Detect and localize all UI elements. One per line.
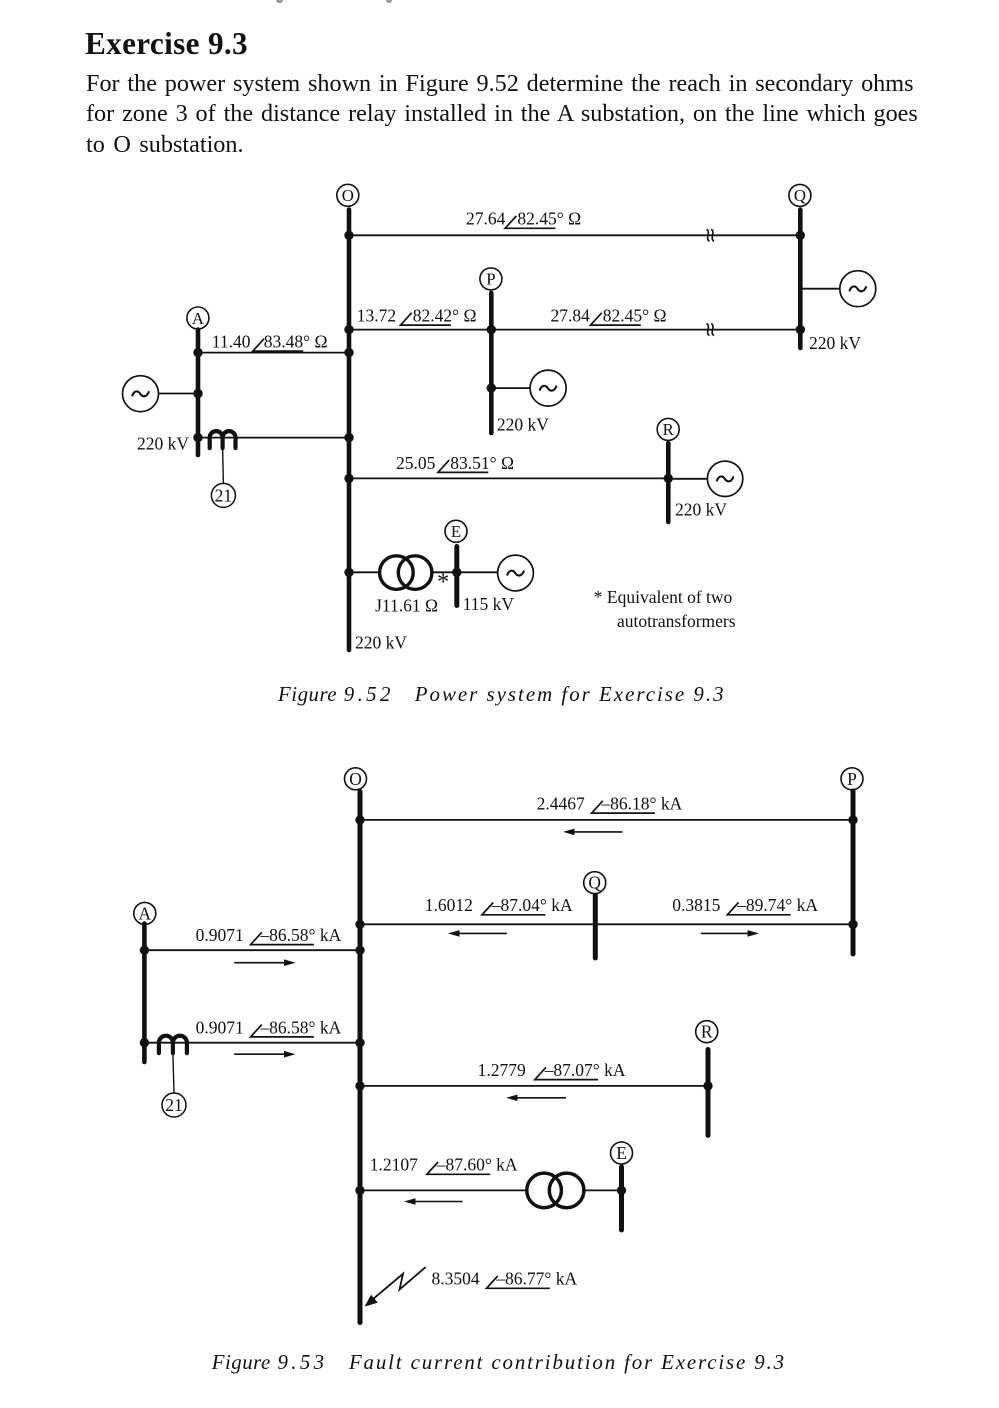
svg-text:8.3504: 8.3504 bbox=[432, 1269, 480, 1289]
svg-text:220 kV: 220 kV bbox=[809, 333, 861, 353]
junction line A-O upper at A bbox=[193, 348, 202, 357]
busbar Q (fig 9.53) bbox=[593, 895, 598, 958]
wire transformer branch O side bbox=[349, 571, 381, 573]
label Q voltage 220 kV bbox=[809, 333, 861, 353]
value label current E-O bbox=[370, 1155, 518, 1175]
node P label (fig 9.52) bbox=[480, 268, 502, 290]
junction line O-Q at O bbox=[344, 231, 353, 240]
value label line P-Q impedance bbox=[551, 306, 667, 326]
svg-text:O: O bbox=[342, 186, 354, 205]
reactor coil on line A-O bbox=[210, 431, 236, 448]
busbar O (fig 9.53) bbox=[358, 791, 363, 1322]
svg-text:P: P bbox=[486, 270, 495, 289]
junction A-O upper at A bbox=[140, 946, 149, 955]
label transformer impedance J11.61 bbox=[375, 596, 438, 616]
junction transformer branch at E bbox=[452, 568, 461, 577]
svg-text:A: A bbox=[139, 903, 152, 923]
svg-text:R: R bbox=[663, 420, 675, 439]
line break mark on line P-Q bbox=[707, 324, 714, 336]
wire current path E-O left bbox=[360, 1189, 527, 1191]
junction generator P lead at P bbox=[487, 383, 496, 392]
figure 9.53 diagram bbox=[0, 755, 999, 1355]
svg-text:83.48° Ω: 83.48° Ω bbox=[264, 332, 328, 352]
flow arrow on O-P upper (to O) bbox=[563, 829, 623, 836]
svg-text:R: R bbox=[701, 1022, 713, 1042]
junction line O-R at O bbox=[344, 474, 353, 483]
junction R-O at O bbox=[355, 1081, 364, 1090]
svg-text:27.64: 27.64 bbox=[466, 209, 506, 229]
junction line O-Q at Q bbox=[796, 231, 805, 240]
node P label (fig 9.53) bbox=[841, 768, 863, 790]
value label line O-P impedance bbox=[357, 306, 477, 326]
node R label (fig 9.53) bbox=[696, 1021, 718, 1043]
relay 21 at A bbox=[211, 449, 235, 508]
svg-text:–89.74° kA: –89.74° kA bbox=[736, 895, 818, 915]
value label current A-O upper bbox=[196, 925, 342, 945]
svg-text:220 kV: 220 kV bbox=[355, 633, 407, 653]
figure 9.52 diagram bbox=[0, 0, 999, 670]
svg-text:11.40: 11.40 bbox=[212, 332, 251, 352]
generator at P bbox=[530, 370, 566, 406]
svg-text:Q: Q bbox=[588, 873, 601, 893]
value label line A-O impedance bbox=[212, 332, 328, 352]
node E label (fig 9.53) bbox=[611, 1142, 633, 1164]
wire current path A-O lower bbox=[144, 1042, 360, 1044]
svg-text:–86.58° kA: –86.58° kA bbox=[259, 1017, 341, 1037]
svg-text:82.45° Ω: 82.45° Ω bbox=[517, 209, 581, 229]
svg-text:0.3815: 0.3815 bbox=[672, 895, 720, 915]
node Q label (fig 9.53) bbox=[584, 872, 606, 894]
svg-text:220 kV: 220 kV bbox=[675, 499, 727, 519]
junction P-Q-O at O bbox=[355, 920, 364, 929]
label footnote line 1 bbox=[594, 587, 733, 607]
node A label (fig 9.52) bbox=[187, 307, 209, 329]
svg-text:–87.60° kA: –87.60° kA bbox=[436, 1155, 518, 1175]
generator at Q bbox=[840, 271, 876, 307]
junction line A-O lower at O bbox=[344, 433, 353, 442]
label E voltage 115 kV bbox=[463, 594, 515, 614]
svg-text:P: P bbox=[847, 769, 857, 789]
wire generator E lead bbox=[457, 571, 498, 573]
svg-text:1.6012: 1.6012 bbox=[425, 895, 473, 915]
busbar P (fig 9.53) bbox=[851, 791, 856, 954]
junction E-O at E bbox=[617, 1186, 626, 1195]
wire current path O-P upper bbox=[360, 819, 853, 821]
value label current A-O lower bbox=[196, 1017, 342, 1037]
svg-text:0.9071: 0.9071 bbox=[196, 925, 244, 945]
svg-text:O: O bbox=[349, 769, 362, 789]
residual marks of cropped previous line bbox=[276, 0, 283, 3]
svg-text:82.45° Ω: 82.45° Ω bbox=[603, 306, 667, 326]
wire line A-O upper bbox=[198, 352, 349, 354]
label asterisk mark bbox=[437, 569, 449, 596]
svg-text:J11.61 Ω: J11.61 Ω bbox=[375, 596, 438, 616]
junction line O-R at R bbox=[664, 474, 673, 483]
heading Exercise 9.3 bbox=[85, 28, 248, 59]
node E label (fig 9.52) bbox=[445, 520, 467, 542]
svg-text:13.72: 13.72 bbox=[357, 306, 396, 326]
busbar R (fig 9.52) bbox=[666, 443, 671, 522]
svg-text:21: 21 bbox=[165, 1095, 183, 1115]
busbar R (fig 9.53) bbox=[706, 1050, 711, 1136]
svg-text:autotransformers: autotransformers bbox=[617, 611, 736, 631]
flow arrow on A-O lower (to O) bbox=[234, 1051, 295, 1058]
caption figure 9.52 bbox=[278, 684, 726, 705]
node O label (fig 9.53) bbox=[345, 768, 367, 790]
svg-text:115 kV: 115 kV bbox=[463, 594, 515, 614]
line break mark on line O-Q bbox=[707, 229, 714, 241]
value label fault current bbox=[432, 1269, 578, 1289]
svg-text:Q: Q bbox=[794, 186, 806, 205]
junction P-Q-O at P bbox=[848, 920, 857, 929]
wire line P-Q bbox=[491, 329, 800, 331]
svg-text:*: * bbox=[437, 569, 449, 596]
wire transformer branch E side bbox=[432, 571, 457, 573]
value label line O-Q impedance bbox=[466, 209, 581, 229]
wire line A-O lower with reactor bbox=[198, 437, 349, 439]
flow arrow on R-O (to O) bbox=[506, 1095, 566, 1102]
wire current path A-O upper bbox=[144, 949, 360, 951]
label A voltage 220 kV bbox=[137, 434, 189, 454]
flow arrow on E-O (to O) bbox=[404, 1198, 463, 1205]
wire line O-P bbox=[349, 329, 491, 331]
junction O-P upper at O bbox=[355, 815, 364, 824]
generator at A bbox=[123, 376, 159, 412]
value label line O-R impedance bbox=[396, 453, 514, 473]
svg-text:–86.58° kA: –86.58° kA bbox=[259, 925, 341, 945]
reactor coil on A-O lower bbox=[159, 1036, 187, 1054]
svg-text:82.42° Ω: 82.42° Ω bbox=[413, 306, 477, 326]
flow arrow on A-O upper (to O) bbox=[234, 959, 295, 966]
svg-text:220 kV: 220 kV bbox=[497, 415, 549, 435]
wire current path P-Q-O bbox=[360, 923, 853, 925]
busbar A (fig 9.53) bbox=[142, 924, 147, 1063]
junction O-P upper at P bbox=[848, 815, 857, 824]
value label current R-O bbox=[478, 1060, 626, 1080]
junction E-O at O bbox=[355, 1186, 364, 1195]
junction A-O lower at O bbox=[355, 1038, 364, 1047]
wire line O-R bbox=[349, 477, 668, 479]
busbar Q (fig 9.52) bbox=[798, 210, 803, 348]
label O voltage 220 kV bbox=[355, 633, 407, 653]
busbar E (fig 9.53) bbox=[619, 1167, 624, 1230]
label R voltage 220 kV bbox=[675, 499, 727, 519]
svg-text:220 kV: 220 kV bbox=[137, 434, 189, 454]
svg-text:0.9071: 0.9071 bbox=[196, 1017, 244, 1037]
junction A-O upper at O bbox=[355, 946, 364, 955]
generator at E bbox=[498, 555, 534, 591]
node R label (fig 9.52) bbox=[657, 418, 679, 440]
wire generator R lead bbox=[668, 478, 707, 480]
svg-text:25.05: 25.05 bbox=[396, 453, 436, 473]
wire generator P lead bbox=[491, 387, 530, 389]
caption figure 9.53 bbox=[212, 1352, 786, 1373]
wire line O-Q bbox=[349, 234, 800, 236]
value label current O-P upper bbox=[537, 794, 683, 814]
junction line A-O lower at A bbox=[193, 433, 202, 442]
transformer O-E autotransformer bbox=[380, 556, 432, 590]
node Q label (fig 9.52) bbox=[789, 184, 811, 206]
svg-text:–86.18° kA: –86.18° kA bbox=[600, 794, 682, 814]
junction line A-O upper at O bbox=[344, 348, 353, 357]
fault arrow at O bbox=[365, 1267, 426, 1307]
svg-text:* Equivalent of two: * Equivalent of two bbox=[594, 587, 733, 607]
flow arrow on Q-O (to O) bbox=[448, 930, 507, 937]
junction line O-P at O bbox=[344, 325, 353, 334]
svg-text:1.2779: 1.2779 bbox=[478, 1060, 526, 1080]
problem statement paragraph bbox=[86, 69, 922, 161]
junction A-O lower at A bbox=[140, 1038, 149, 1047]
svg-text:83.51° Ω: 83.51° Ω bbox=[450, 453, 514, 473]
junction transformer branch at O bbox=[344, 568, 353, 577]
busbar P (fig 9.52) bbox=[489, 293, 494, 433]
junction line O-P at P bbox=[487, 325, 496, 334]
label footnote line 2 bbox=[617, 611, 736, 631]
junction R-O at R bbox=[703, 1081, 712, 1090]
wire current path E-O right bbox=[584, 1189, 622, 1191]
svg-text:–87.04° kA: –87.04° kA bbox=[491, 895, 573, 915]
svg-text:27.84: 27.84 bbox=[551, 306, 591, 326]
svg-text:21: 21 bbox=[215, 486, 233, 506]
wire generator Q lead bbox=[800, 288, 839, 290]
svg-text:–86.77° kA: –86.77° kA bbox=[495, 1269, 577, 1289]
svg-text:1.2107: 1.2107 bbox=[370, 1155, 418, 1175]
relay 21 at A (fig 9.53) bbox=[162, 1054, 186, 1118]
busbar E (fig 9.52) bbox=[454, 547, 459, 606]
label P voltage 220 kV bbox=[497, 415, 549, 435]
wire current path R-O bbox=[360, 1085, 708, 1087]
value label current P-Q bbox=[672, 895, 818, 915]
junction line P-Q at Q bbox=[796, 325, 805, 334]
svg-text:–87.07° kA: –87.07° kA bbox=[544, 1060, 626, 1080]
flow arrow on P-Q (to Q) bbox=[701, 930, 759, 937]
svg-text:E: E bbox=[451, 522, 461, 541]
node O label (fig 9.52) bbox=[337, 184, 359, 206]
busbar A (fig 9.52) bbox=[196, 330, 201, 456]
svg-text:A: A bbox=[192, 309, 204, 328]
wire generator A lead bbox=[159, 393, 199, 395]
junction generator A lead at A bbox=[193, 389, 202, 398]
busbar O (fig 9.52) bbox=[347, 210, 352, 651]
generator at R bbox=[707, 461, 742, 496]
svg-text:E: E bbox=[616, 1143, 627, 1163]
node A label (fig 9.53) bbox=[134, 902, 156, 924]
svg-text:2.4467: 2.4467 bbox=[537, 794, 585, 814]
transformer E-O transformer bbox=[527, 1173, 584, 1208]
value label current Q-O bbox=[425, 895, 573, 915]
